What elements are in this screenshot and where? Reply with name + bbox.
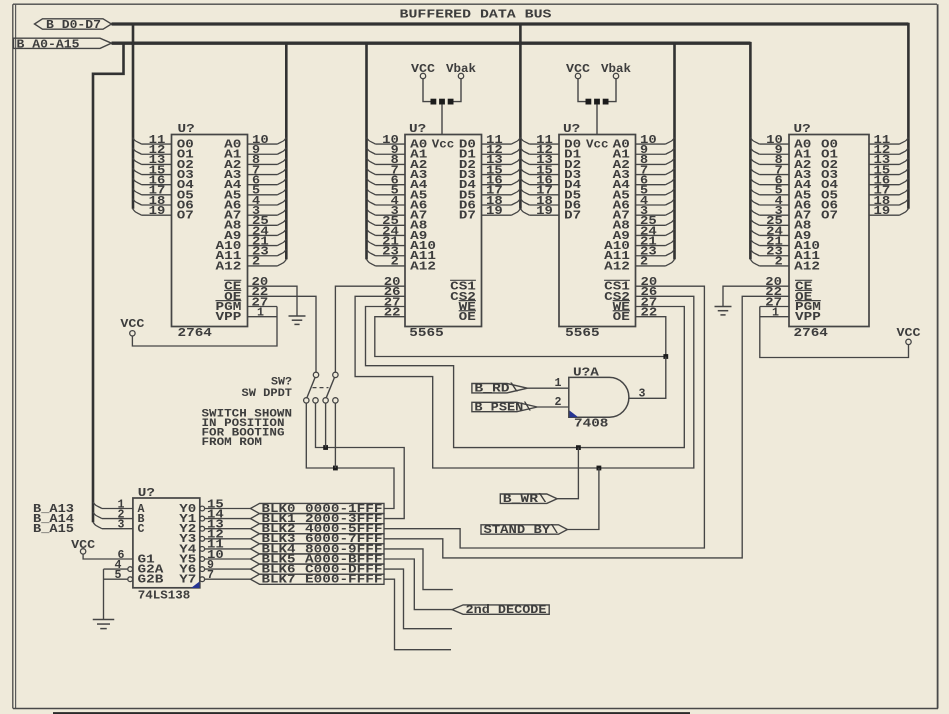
wire left 2764 OE to switch pole1 [248,296,317,372]
svg-text:2764: 2764 [794,327,828,340]
net CS2/STAND_BY wire [355,296,694,468]
74LS138 input stubs with bus entries [102,508,133,510]
bus B_D0-D7 horizontal [112,22,909,25]
svg-text:Vcc: Vcc [586,139,609,152]
svg-text:FROM ROM: FROM ROM [202,437,263,449]
svg-text:A12: A12 [410,260,436,273]
wire switch pole2 right throw [334,403,336,468]
net label B_RD [472,384,528,393]
svg-text:B_WR\: B_WR\ [503,493,547,506]
net label STAND_BY [481,525,567,534]
addr bus drop to left 2764 [285,43,288,259]
wire BLK4 stub [384,549,453,590]
5565 left data pin stubs 11-19 with bus entries [482,143,512,145]
svg-text:A12: A12 [604,260,630,273]
svg-text:C: C [138,523,145,536]
wire right 2764 PGM [760,306,789,308]
svg-text:VCC: VCC [411,63,435,76]
wire G2A/G2B to ground [103,569,105,619]
svg-text:5: 5 [115,569,122,582]
switch SW? DPDT [313,372,318,377]
2764 left data pin stubs 11-19 with bus entries [142,143,172,145]
ground 74LS138 [93,619,115,621]
wire switch netA to BLK1 [316,403,405,518]
IC U? 2764 right EPROM body [789,135,869,327]
74LS138 output Y1 bubble and stub pin 14 [200,516,205,521]
74LS138 output Y5 bubble and stub pin 10 [200,557,205,562]
AND gate pin 2 wire from B_PSEN [537,406,569,408]
wire STAND_BY branch [567,468,599,530]
blue mark on AND gate [570,411,579,418]
svg-text:BLK7: BLK7 [262,574,296,587]
svg-text:19: 19 [149,205,166,218]
wire left 2764 PGM [248,306,278,308]
AND gate pin 1 wire from B_RD [527,387,568,389]
net label BLK2 4000-5FFF [251,524,385,534]
svg-text:OE: OE [613,311,630,324]
wire left 5565 CS1 to switch pole2 [335,286,405,372]
net RAM OE wire left [375,317,666,357]
junction switch netA [323,445,328,450]
svg-text:22: 22 [641,306,658,319]
wire left 2764 VPP [248,316,278,318]
junction RAM OE / AND output [663,354,668,359]
wire BLK6 stub [384,569,452,629]
74LS138 output Y0 bubble and stub pin 15 [200,506,205,511]
addr bus jog down to 74LS138 [93,43,124,522]
wire left 2764 CE to ground [248,286,298,316]
wire switch netB to BLK0 [306,403,394,508]
2764 right addr pin stubs with bus entries [759,143,789,145]
addr bus corner drop to right 2764 [749,43,750,259]
svg-text:E000-FFFF: E000-FFFF [305,574,383,587]
5565 left addr pin stubs with bus entries [375,143,405,145]
svg-text:B_RD\: B_RD\ [474,383,518,396]
junction switch netB [333,466,338,471]
IC U? 5565 right RAM body [559,135,636,327]
net label BLK0 0000-1FFF [251,503,385,513]
ground left 2764 CE [289,315,306,317]
svg-text:SW DPDT: SW DPDT [242,388,293,400]
svg-text:3: 3 [639,387,646,400]
svg-text:U?: U? [138,487,155,500]
74LS138 output Y2 bubble and stub pin 13 [200,526,205,531]
net label BLK7 E000-FFFF [251,574,385,584]
net right 5565 CS1 to BLK2 [384,286,704,548]
IC U? 74LS138 decoder body [133,498,200,588]
svg-text:O7: O7 [177,210,194,223]
2764 left addr pin stubs with bus entries [248,143,278,145]
svg-text:B_A0-A15: B_A0-A15 [17,38,80,51]
net label BLK4 8000-9FFF [251,544,385,554]
net label BLK1 2000-3FFF [251,514,385,524]
svg-text:Y7: Y7 [179,574,196,587]
svg-text:2: 2 [640,256,648,269]
net RAM OE wire right [636,317,666,357]
svg-text:2nd DECODE: 2nd DECODE [466,604,547,617]
svg-text:2: 2 [555,396,562,409]
svg-text:U?: U? [178,123,195,136]
wire BLK5 to 2nd DECODE [384,559,452,610]
bus label B_D0-D7 [35,19,112,29]
svg-text:B_A15: B_A15 [33,523,74,536]
svg-text:2: 2 [252,256,260,269]
svg-text:U?: U? [794,123,811,136]
svg-text:19: 19 [874,205,891,218]
74LS138 output Y4 bubble and stub pin 11 [200,547,205,552]
svg-text:B_D0-D7: B_D0-D7 [46,19,101,32]
svg-text:VPP: VPP [216,311,242,324]
blue mark on 74LS138 [191,582,200,589]
74LS138 output Y7 bubble and stub pin 7 [200,577,205,582]
svg-text:19: 19 [486,205,503,218]
wire B_WR branch [557,448,578,499]
net label B_WR [500,494,557,503]
scanner edge artifact bottom [53,712,690,714]
net right 2764 OE to BLK3 [384,296,789,558]
svg-text:STAND_BY\: STAND_BY\ [484,524,559,537]
bus B_A0-A15 horizontal [112,42,751,45]
bus label B_A0-A15 [14,38,112,48]
svg-text:1: 1 [257,306,264,319]
74LS138 G2A pin with bubble [128,567,133,572]
data bus drop between 5565s [519,24,522,209]
net label 2nd DECODE [452,605,549,614]
junction B_WR tap [576,445,581,450]
svg-text:Vcc: Vcc [432,139,455,152]
ground right 2764 CE [715,306,732,308]
wire AND output to OE net [629,357,666,399]
net label BLK5 A000-BFFF [251,554,385,564]
74LS138 output Y6 bubble and stub pin 9 [200,567,205,572]
AND gate U?A 7408 [569,377,629,417]
svg-text:2: 2 [391,256,399,269]
data bus corner drop to right 2764 [907,24,909,209]
2764 right data pin stubs 11-19 with bus entries [869,143,900,145]
net label B_PSEN [472,402,537,411]
svg-text:G2B: G2B [138,574,164,587]
svg-text:5565: 5565 [565,327,599,340]
wire PGM/VPP tie to VCC left [132,307,277,347]
svg-text:1: 1 [555,377,562,390]
svg-text:3: 3 [118,519,125,532]
IC U? 5565 left RAM body [405,135,482,327]
svg-text:OE: OE [459,311,476,324]
wire right 2764 VPP [760,316,789,318]
svg-text:O7: O7 [821,210,838,223]
svg-text:A12: A12 [794,260,820,273]
svg-text:Vbak: Vbak [601,63,631,76]
svg-text:7: 7 [207,569,214,582]
junction STAND_BY tap [597,466,602,471]
5565 right data pin stubs 11-19 with bus entries [529,143,559,145]
addr bus drop to left 5565 [365,43,368,259]
svg-text:D7: D7 [564,210,581,223]
svg-text:U?: U? [409,123,426,136]
svg-text:2: 2 [775,256,783,269]
wire right 2764 CE to ground [723,286,789,306]
net label BLK6 C000-DFFF [251,564,385,574]
svg-text:D7: D7 [459,210,476,223]
svg-text:5565: 5565 [409,327,443,340]
svg-text:BUFFERED DATA BUS: BUFFERED DATA BUS [400,8,552,22]
svg-text:VCC: VCC [71,539,95,552]
svg-text:VCC: VCC [120,318,144,331]
svg-text:VCC: VCC [897,327,921,340]
net label BLK3 6000-7FFF [251,534,385,544]
addr bus drop to right 5565 [673,43,676,259]
74LS138 G2B pin with bubble [128,577,133,582]
wire PGM/VPP tie to VCC right [760,307,909,358]
svg-text:19: 19 [536,205,553,218]
svg-text:7408: 7408 [574,418,608,431]
svg-text:U?: U? [563,123,580,136]
border frame [13,3,937,5]
svg-text:2764: 2764 [178,327,212,340]
svg-text:1: 1 [772,306,779,319]
svg-text:VPP: VPP [795,311,821,324]
wire VCC to G1 [83,554,133,559]
wire switch pole2 left throw [325,403,327,447]
5565 right addr pin stubs with bus entries [636,143,666,145]
net WE/B_WR wire [366,307,685,448]
svg-text:U?A: U?A [573,366,599,379]
IC U? 2764 left EPROM body [172,135,248,327]
svg-text:A12: A12 [216,260,242,273]
svg-text:74LS138: 74LS138 [138,590,191,603]
svg-text:Vbak: Vbak [446,63,476,76]
svg-text:B_PSEN\: B_PSEN\ [474,401,531,414]
wire BLK7 stub [384,579,451,650]
svg-text:VCC: VCC [566,63,590,76]
svg-text:SW?: SW? [271,377,292,389]
data bus drop to U? 2764 left [132,24,135,209]
svg-text:22: 22 [384,306,401,319]
74LS138 output Y3 bubble and stub pin 12 [200,536,205,541]
